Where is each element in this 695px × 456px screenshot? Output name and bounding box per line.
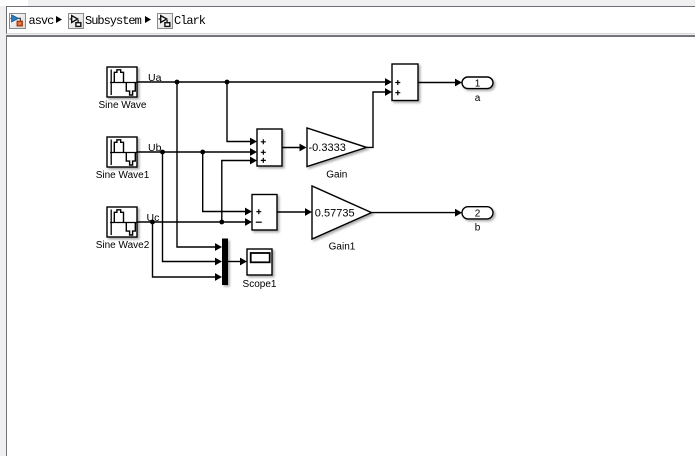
svg-text:Uc: Uc	[147, 212, 160, 224]
svg-text:-0.3333: -0.3333	[309, 142, 346, 154]
svg-text:Gain1: Gain1	[329, 242, 356, 253]
svg-text:2: 2	[475, 209, 481, 220]
svg-text:Gain: Gain	[326, 170, 347, 181]
svg-text:a: a	[475, 93, 481, 104]
svg-text:Ub: Ub	[148, 142, 162, 154]
svg-text:1: 1	[475, 78, 481, 89]
svg-text:0.57735: 0.57735	[315, 207, 355, 219]
svg-text:Scope1: Scope1	[243, 279, 277, 290]
svg-text:b: b	[475, 223, 481, 234]
svg-text:Ua: Ua	[148, 72, 162, 84]
svg-text:Sine Wave: Sine Wave	[99, 100, 147, 111]
svg-text:Sine Wave1: Sine Wave1	[96, 170, 150, 181]
svg-text:Sine Wave2: Sine Wave2	[96, 240, 150, 251]
